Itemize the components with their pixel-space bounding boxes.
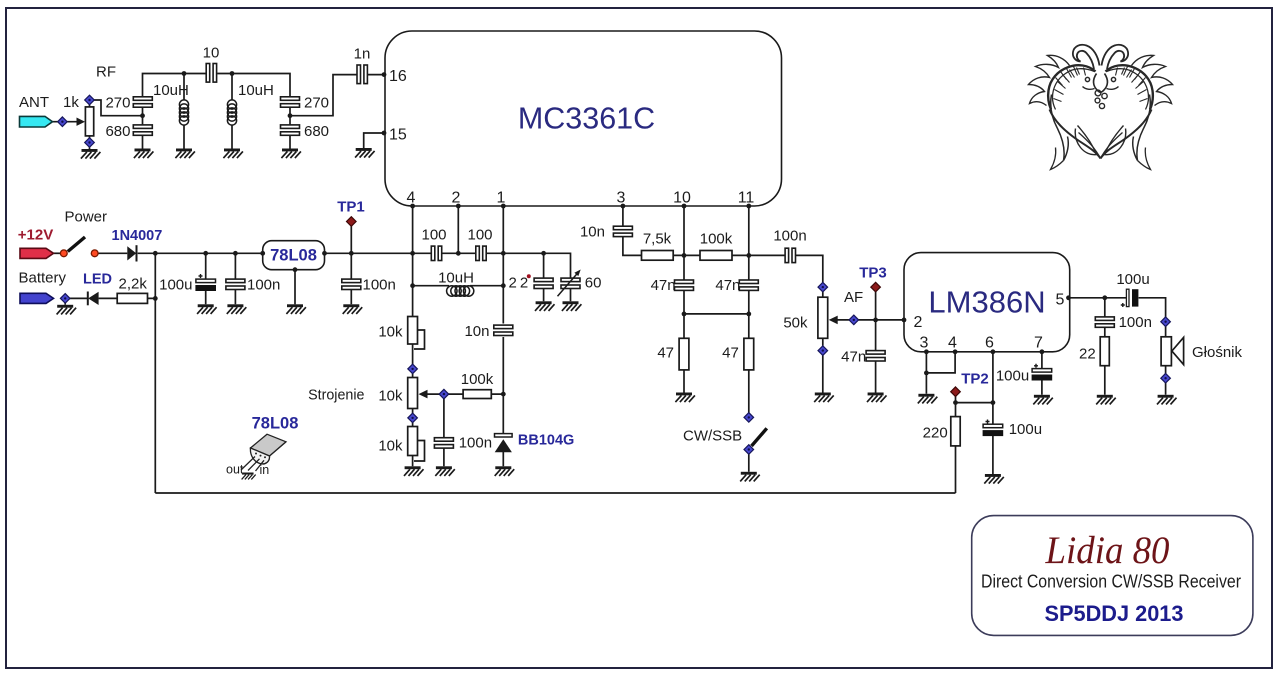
svg-text:LM386N: LM386N	[928, 284, 1045, 319]
node battery	[60, 294, 70, 304]
node at ANT	[58, 117, 68, 127]
switch Power lever	[68, 237, 85, 252]
junction 100u	[203, 251, 208, 256]
ground 60	[562, 301, 582, 311]
capacitor 100u pin7 plus	[1034, 364, 1038, 368]
svg-text:47n: 47n	[715, 277, 740, 294]
wire TP1 drop	[350, 226, 352, 305]
switch CW/SSB node a	[744, 413, 754, 423]
wire caps to ground	[90, 105, 291, 150]
svg-text:ANT: ANT	[19, 94, 49, 111]
svg-text:100n: 100n	[247, 277, 280, 294]
switch CW/SSB lever	[752, 428, 767, 446]
potentiometer 50k wiper	[829, 316, 853, 325]
wire 10uH horizontal	[413, 285, 504, 287]
junction L osc left	[410, 283, 415, 288]
capacitor 100 a	[431, 246, 441, 260]
svg-text:100u: 100u	[996, 368, 1029, 385]
wire 100n drop	[234, 253, 236, 304]
svg-text:100u: 100u	[1116, 271, 1149, 288]
wire osc rail segments	[413, 253, 571, 277]
wire pins 3 4 gnd	[926, 352, 955, 394]
capacitor 1n	[357, 65, 367, 84]
svg-text:TP3: TP3	[859, 265, 887, 282]
pin 11 dot	[746, 204, 751, 209]
wire 78L08 out to rail	[325, 252, 413, 254]
pin 4 dot	[410, 204, 415, 209]
junction rail pin4	[410, 251, 415, 256]
capacitor 100u pin6	[983, 424, 1003, 435]
junction 270b	[288, 113, 293, 118]
svg-text:10: 10	[203, 45, 220, 62]
svg-text:TP1: TP1	[337, 199, 365, 216]
pin 3 dot	[621, 204, 626, 209]
ground 22	[535, 301, 555, 311]
svg-text:7: 7	[1034, 335, 1043, 352]
svg-text:LED: LED	[83, 272, 112, 288]
testpoint TP1	[347, 217, 357, 227]
junction 47n link right	[746, 312, 751, 317]
wire speaker bottom	[1165, 326, 1167, 395]
svg-text:100u: 100u	[159, 277, 192, 294]
svg-text:7,5k: 7,5k	[643, 231, 672, 248]
capacitor 680b	[281, 125, 300, 135]
svg-text:10k: 10k	[378, 438, 403, 455]
ground 100n varactor	[435, 466, 455, 476]
node wiper	[439, 389, 449, 399]
pin 1 dot	[501, 204, 506, 209]
switch Power terminal b	[91, 250, 98, 257]
svg-text:100k: 100k	[700, 231, 733, 248]
red dot 22	[527, 274, 531, 278]
node 10k b	[408, 413, 418, 423]
junction TP2	[953, 400, 958, 405]
trimmer 60 arrow	[558, 270, 581, 297]
junction pins34	[924, 371, 929, 376]
switch CW/SSB node b	[744, 445, 754, 455]
wire 270a top to top rail	[143, 74, 206, 97]
ground pin3	[918, 394, 938, 404]
junction pin5 out	[1102, 295, 1107, 300]
potentiometer 10k wiper arrow	[419, 390, 449, 399]
capacitor 680a	[133, 125, 152, 135]
svg-text:6: 6	[985, 335, 994, 352]
speaker Glosnik	[1161, 337, 1184, 366]
resistor 100k osc	[463, 390, 491, 399]
svg-text:100n: 100n	[1119, 314, 1152, 331]
svg-text:100n: 100n	[363, 277, 396, 294]
wire pin6 cap	[992, 403, 994, 474]
junction LED node	[153, 296, 158, 301]
resistor 10k top	[408, 317, 425, 350]
node 50k wiper	[849, 315, 859, 325]
svg-text:AF: AF	[844, 289, 863, 306]
capacitor 47n pin10	[675, 280, 694, 290]
wire diode to 78L08	[138, 252, 263, 254]
svg-text:5: 5	[1056, 292, 1065, 309]
wire switch to diode	[98, 252, 127, 254]
capacitor 270a	[133, 97, 152, 107]
pin 15 dot	[382, 131, 387, 136]
potentiometer RF 1k body	[85, 107, 93, 136]
capacitor 22	[534, 278, 553, 288]
node speaker top	[1161, 317, 1171, 327]
wire 100k to 100n	[732, 254, 785, 256]
svg-text:100: 100	[421, 227, 446, 244]
resistor 10k mid body	[408, 378, 418, 409]
node speaker bottom	[1161, 373, 1171, 383]
testpoint TP3	[871, 282, 881, 292]
junction TP1	[349, 251, 354, 256]
svg-text:SP5DDJ 2013: SP5DDJ 2013	[1045, 601, 1184, 626]
pin 16 dot	[382, 72, 387, 77]
svg-text:2,2k: 2,2k	[119, 276, 148, 293]
junction RF node	[140, 113, 145, 118]
svg-text:11: 11	[738, 190, 755, 207]
capacitor 100u pin7	[1032, 369, 1052, 380]
capacitor 100n varactor	[434, 438, 453, 448]
capacitor 47n pin11	[739, 280, 758, 290]
connector +12V	[20, 248, 54, 258]
junction 100k pin1	[501, 392, 506, 397]
wire 1n to pin16	[368, 74, 385, 76]
svg-text:100n: 100n	[459, 435, 492, 452]
wire wiper to 100k	[449, 393, 504, 395]
svg-text:10uH: 10uH	[153, 82, 189, 99]
wire rail long	[155, 492, 955, 494]
junction 22 cap	[541, 251, 546, 256]
junction 47n link left	[682, 312, 687, 317]
ground speaker	[1157, 395, 1177, 405]
ground 47n af	[867, 393, 887, 403]
pin 5 lm dot	[1066, 295, 1071, 300]
ground 47 pin10	[675, 393, 695, 403]
logo fish heart	[1029, 45, 1173, 170]
ground 680b	[281, 149, 301, 159]
capacitor 100u pin6 plus	[986, 420, 990, 424]
capacitor 100n out	[1095, 317, 1114, 327]
svg-text:1n: 1n	[354, 46, 371, 63]
svg-text:1N4007: 1N4007	[112, 228, 163, 244]
wire wiper 50k to pin2	[859, 292, 905, 393]
connector ANT	[20, 116, 53, 127]
regulator 78L08 body	[263, 241, 325, 270]
pin 4 lm dot	[953, 349, 958, 354]
wire 100n varactor drop	[443, 399, 445, 467]
node 50k bottom	[818, 346, 828, 356]
svg-text:47n: 47n	[651, 277, 676, 294]
junction L osc right	[501, 283, 506, 288]
wire pin7 cap	[1041, 352, 1043, 395]
connector Battery	[20, 293, 54, 303]
potentiometer 50k body	[818, 297, 828, 338]
node pot bottom	[85, 138, 95, 148]
svg-text:Battery: Battery	[19, 270, 67, 287]
wire pin15 to ground	[364, 133, 385, 148]
pin 7 lm dot	[1040, 349, 1045, 354]
ground pin15	[355, 148, 375, 158]
junction 100n	[233, 251, 238, 256]
ground 22 out	[1096, 395, 1116, 405]
svg-text:Power: Power	[65, 209, 108, 226]
svg-text:in: in	[260, 463, 270, 477]
ground L1	[175, 149, 195, 159]
junction switched 12V	[153, 251, 158, 256]
wire 47n link	[684, 313, 749, 315]
junction AF node	[873, 318, 878, 323]
resistor 220	[951, 417, 960, 446]
wire pin5 out	[1069, 298, 1166, 395]
wire LED to 2,2k and node	[99, 297, 156, 299]
wire +12V to switch	[54, 252, 61, 254]
svg-text:4: 4	[407, 190, 416, 207]
capacitor 100 b	[476, 246, 486, 260]
svg-text:Direct Conversion CW/SSB Recei: Direct Conversion CW/SSB Receiver	[981, 572, 1241, 592]
wire 10k chain	[412, 344, 414, 466]
resistor 22 out	[1100, 337, 1109, 366]
svg-text:60: 60	[585, 275, 602, 292]
svg-text:47: 47	[657, 345, 674, 362]
ground pot	[81, 149, 101, 159]
svg-text:220: 220	[923, 425, 948, 442]
ground 50k	[814, 393, 834, 403]
diode LED	[88, 292, 99, 306]
inductor L2 10uH	[227, 100, 236, 125]
svg-text:10n: 10n	[464, 323, 489, 340]
ground 680a	[134, 149, 154, 159]
wire battery diamond to LED	[65, 298, 87, 304]
wire ANT to pot wiper	[52, 121, 78, 123]
wire pin6 down	[956, 352, 993, 493]
svg-text:2: 2	[914, 314, 923, 331]
svg-text:22: 22	[1079, 346, 1096, 363]
wire pin1 down	[502, 206, 504, 466]
capacitor 10	[206, 64, 216, 83]
IC LM386N body	[904, 253, 1070, 352]
junction rail pin1	[501, 251, 506, 256]
wire 7,5k to 100k	[673, 254, 700, 256]
package 78L08 TO-92 drawing	[241, 434, 286, 471]
wire 22 cap to gnd	[544, 289, 571, 302]
ground BB104G	[495, 466, 515, 476]
diode 1N4007	[127, 245, 136, 261]
capacitor 100u electrolytic plus mark	[199, 274, 203, 278]
svg-text:10uH: 10uH	[238, 82, 274, 99]
resistor 47 pin11	[744, 338, 754, 370]
pin 10 dot	[682, 204, 687, 209]
pin dots 78L08	[260, 251, 327, 272]
junction pin6	[991, 400, 996, 405]
svg-text:Lidia 80: Lidia 80	[1045, 529, 1170, 572]
svg-text:out: out	[226, 463, 244, 477]
capacitor 10n pin3	[613, 226, 632, 236]
node 10k a	[408, 364, 418, 374]
svg-text:270: 270	[304, 94, 329, 111]
junction L1	[182, 71, 187, 76]
svg-text:10uH: 10uH	[438, 270, 474, 287]
wire pin4 down	[412, 206, 414, 317]
junction pin10 line	[682, 253, 687, 258]
svg-text:MC3361C: MC3361C	[518, 102, 655, 136]
node pot top	[85, 95, 95, 105]
resistor 10k bottom	[408, 427, 425, 462]
wire pin11 down	[748, 206, 750, 413]
svg-text:78L08: 78L08	[252, 415, 299, 433]
potentiometer RF 1k wiper arrow	[77, 118, 86, 126]
svg-text:10n: 10n	[580, 224, 605, 241]
svg-text:BB104G: BB104G	[518, 433, 574, 449]
svg-text:100: 100	[467, 227, 492, 244]
svg-text:Strojenie: Strojenie	[308, 388, 364, 404]
svg-text:50k: 50k	[783, 315, 808, 332]
svg-text:16: 16	[389, 68, 407, 85]
svg-text:100n: 100n	[773, 228, 806, 245]
wire inductor L2 drops	[231, 74, 233, 149]
svg-text:CW/SSB: CW/SSB	[683, 428, 742, 445]
wire switched 12V down	[154, 253, 156, 493]
capacitor 100u out electrolytic	[1121, 289, 1139, 307]
wire inductor L1 drops	[183, 74, 185, 149]
ground 100u pin6	[984, 474, 1004, 484]
resistor 47 pin10	[679, 338, 689, 370]
ground battery	[57, 305, 77, 315]
svg-text:3: 3	[920, 335, 929, 352]
svg-text:Głośnik: Głośnik	[1192, 344, 1243, 361]
wire 270b junction to 1n	[143, 75, 357, 125]
title block box	[972, 516, 1253, 636]
svg-text:3: 3	[617, 190, 626, 207]
resistor 2,2k	[117, 293, 147, 303]
switch Power terminal a	[60, 250, 67, 257]
IC MC3361C body	[385, 31, 782, 206]
bubbles	[1095, 90, 1101, 96]
svg-text:78L08: 78L08	[270, 247, 317, 265]
ground 78L08	[286, 304, 306, 314]
wire 50k bottom	[822, 338, 824, 392]
svg-text:10: 10	[673, 190, 691, 207]
capacitor 100u electrolytic	[196, 279, 216, 290]
pin 6 lm dot	[991, 349, 996, 354]
wire pin2 down	[457, 206, 459, 253]
wire pot top to RF filter node	[94, 100, 143, 116]
wire pin3 down	[623, 206, 642, 255]
varactor BB104G	[495, 434, 513, 453]
ground L2	[223, 149, 243, 159]
capacitor 60 trimmer	[561, 278, 580, 288]
ground 100u	[197, 304, 217, 314]
pin 2 dot	[456, 204, 461, 209]
wire CW switch	[748, 454, 750, 472]
svg-text:15: 15	[389, 126, 407, 143]
capacitor 100n supply	[226, 279, 245, 289]
svg-text:270: 270	[105, 94, 130, 111]
junction L2	[230, 71, 235, 76]
junction rail pin2	[456, 251, 461, 256]
resistor 100k af	[700, 251, 732, 261]
capacitor 270b	[281, 97, 300, 107]
wire 78L08 gnd pin	[294, 270, 296, 305]
svg-text:4: 4	[948, 335, 957, 352]
svg-text:100u: 100u	[1009, 421, 1042, 438]
wire 100u drop	[205, 253, 207, 304]
ground 100u pin7	[1033, 395, 1053, 405]
svg-text:680: 680	[105, 123, 130, 140]
wire pin10 down	[683, 206, 685, 393]
svg-text:100k: 100k	[461, 371, 494, 388]
svg-text:10k: 10k	[378, 388, 403, 405]
capacitor 100n TP1	[342, 279, 361, 289]
svg-text:10k: 10k	[378, 324, 403, 341]
pin 3 lm dot	[924, 349, 929, 354]
svg-text:1k: 1k	[63, 94, 79, 111]
svg-text:TP2: TP2	[961, 371, 989, 388]
capacitor 10n pin1	[494, 325, 513, 335]
ground 10k	[404, 466, 424, 476]
svg-text:+12V: +12V	[18, 227, 53, 244]
inductor 10uH osc horizontal	[447, 286, 474, 296]
wire 100n to 50k top	[796, 255, 823, 297]
node 50k top	[818, 282, 828, 292]
pin 2 lm dot	[902, 318, 907, 323]
svg-text:RF: RF	[96, 64, 116, 81]
svg-text:680: 680	[304, 123, 329, 140]
testpoint TP2	[951, 387, 961, 397]
ground TO92	[242, 473, 256, 480]
wire top rail cap 10 to 270b	[217, 74, 290, 97]
svg-text:47: 47	[722, 345, 739, 362]
ground CW/SSB	[740, 472, 760, 482]
ground 100n	[227, 304, 247, 314]
inductor L1 10uH	[179, 100, 188, 125]
svg-text:47n: 47n	[841, 349, 866, 366]
capacitor 47n af	[866, 351, 885, 361]
junction pin11 line	[746, 253, 751, 258]
capacitor 100n af coupling	[785, 248, 795, 262]
resistor 7,5k	[642, 251, 674, 261]
ground 100n TP1	[343, 304, 363, 314]
